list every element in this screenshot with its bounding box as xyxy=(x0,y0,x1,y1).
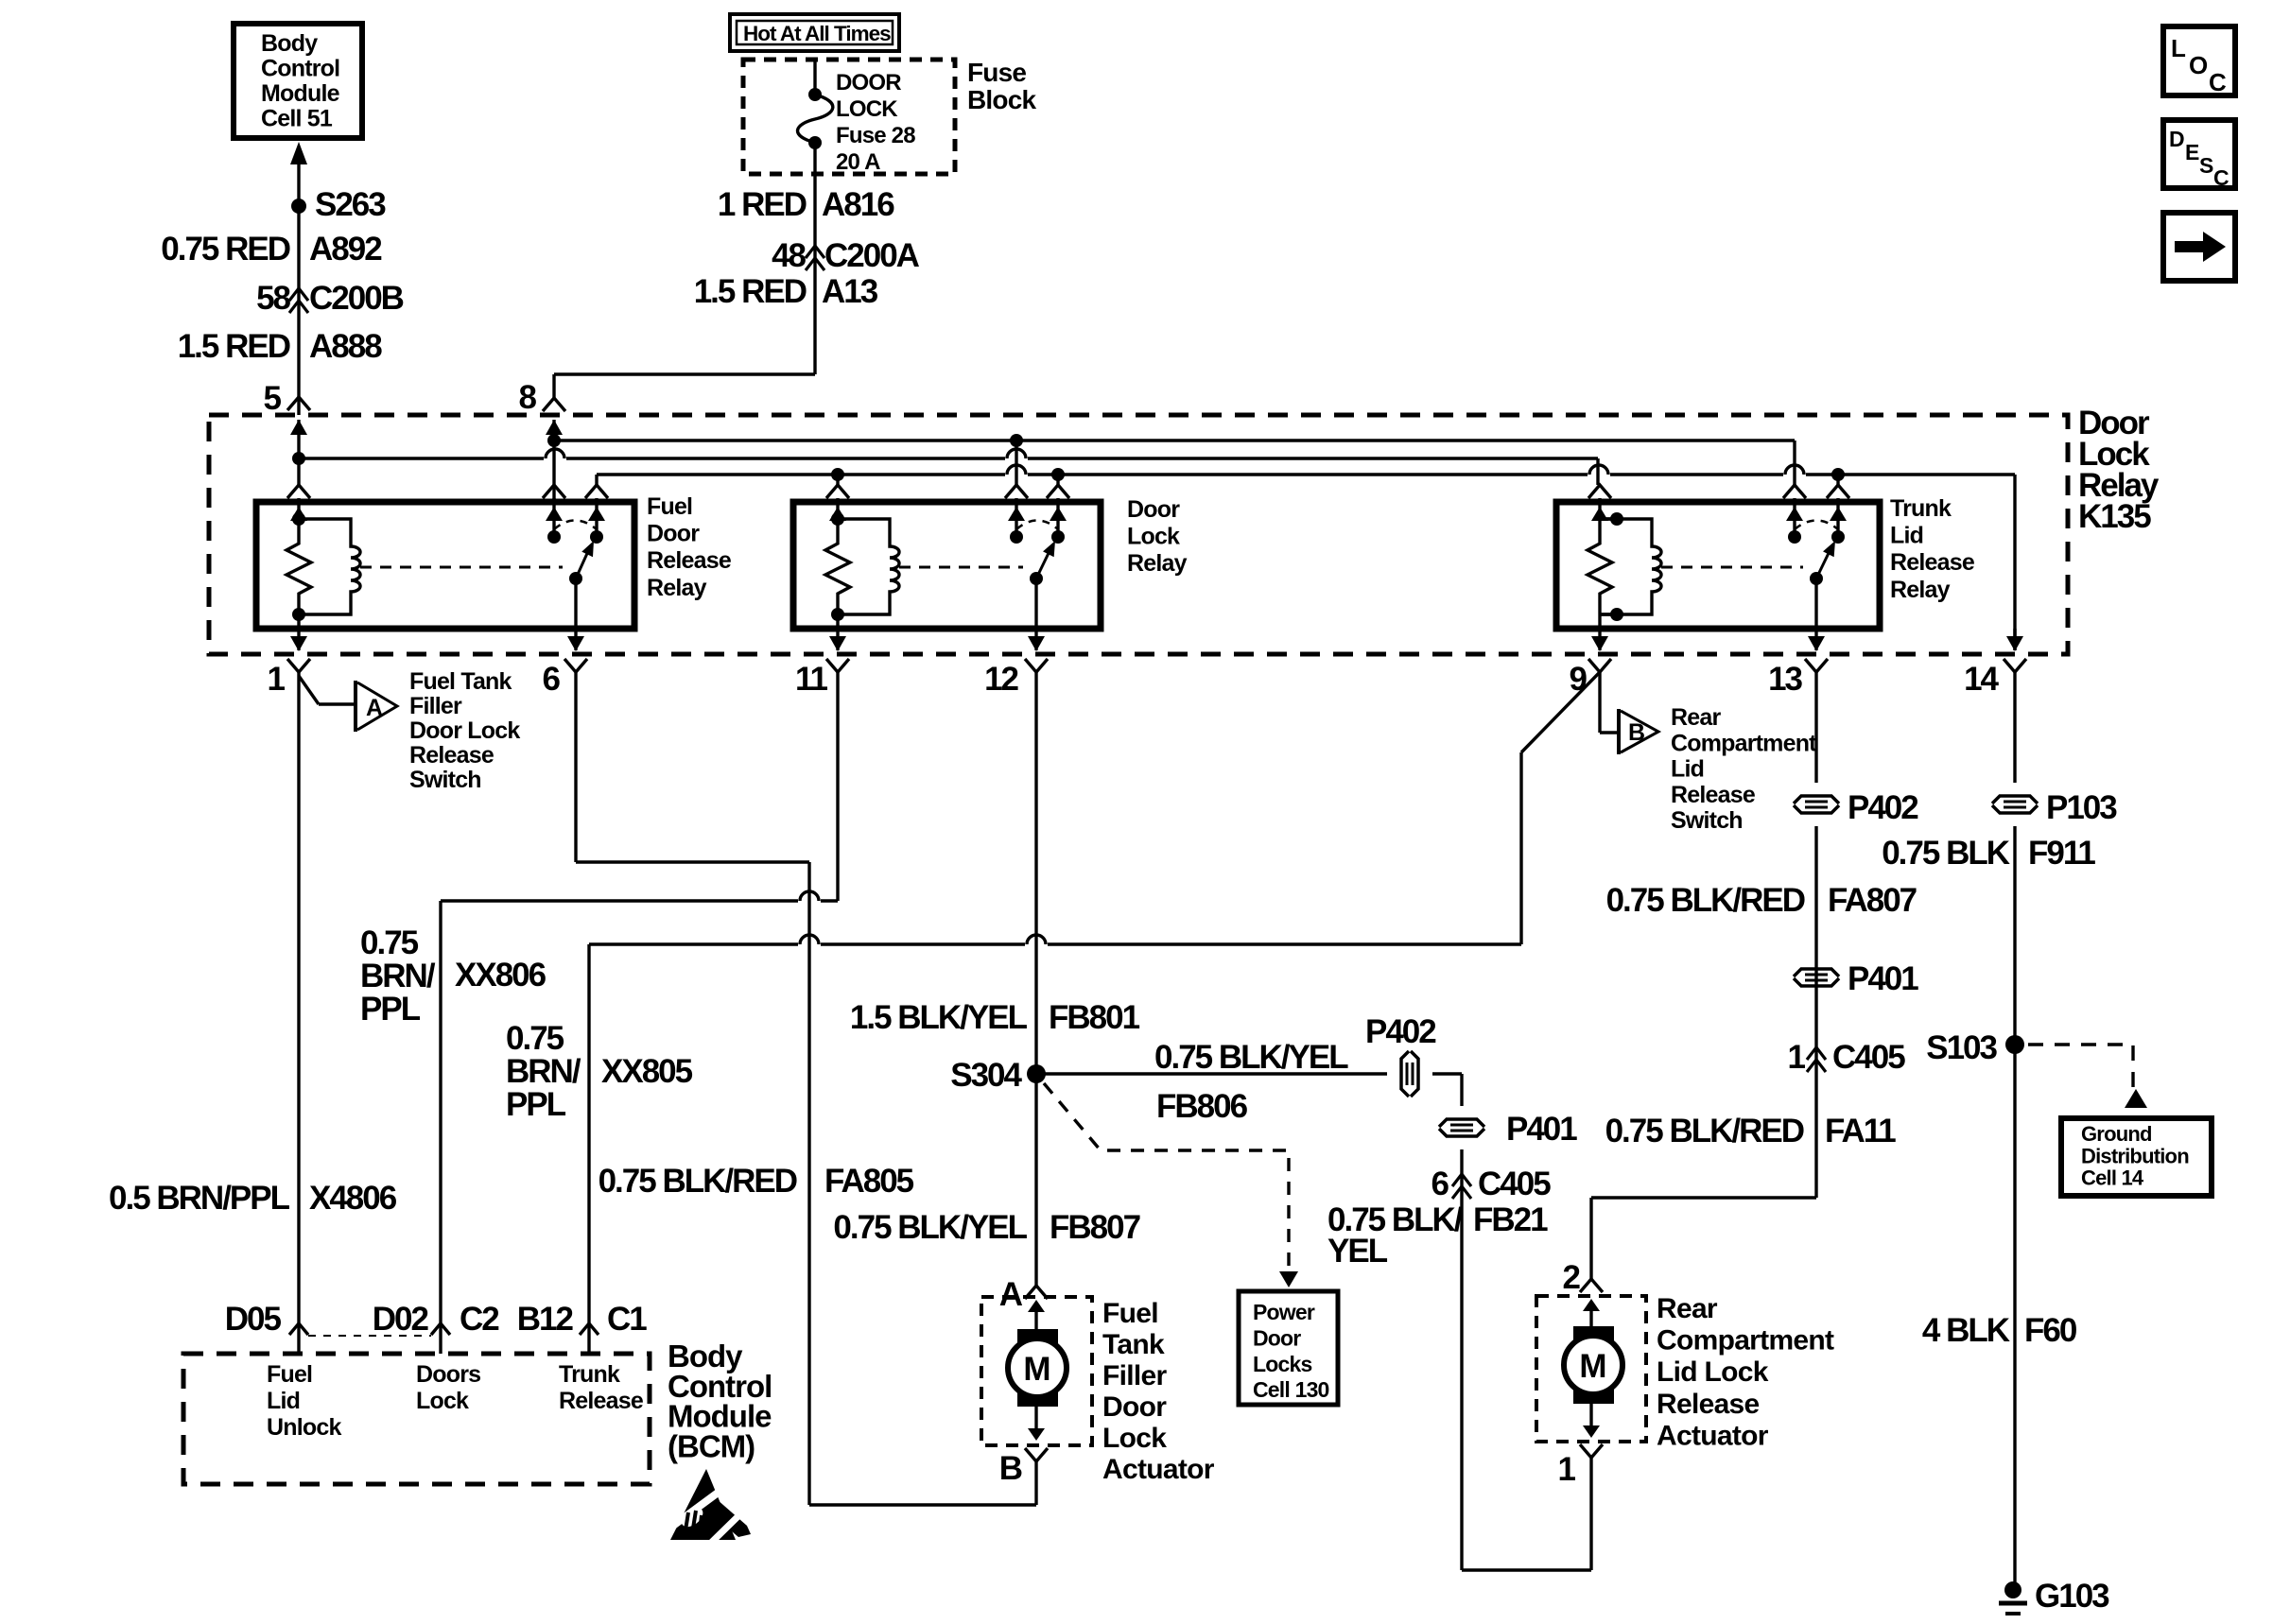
switch A pointer xyxy=(299,676,319,704)
wire actuator1 B loop xyxy=(1034,1461,1037,1505)
svg-text:FB806: FB806 xyxy=(1156,1088,1248,1125)
svg-text:Lock: Lock xyxy=(416,1388,469,1414)
svg-text:Relay: Relay xyxy=(647,575,707,601)
svg-text:Release: Release xyxy=(1890,549,1975,576)
svg-text:D: D xyxy=(2169,127,2185,151)
svg-text:LOCK: LOCK xyxy=(836,96,898,122)
ESD symbol xyxy=(670,1469,736,1540)
svg-text:Trunk: Trunk xyxy=(1890,495,1952,522)
ground G103 xyxy=(2004,1581,2021,1598)
svg-text:P402: P402 xyxy=(1848,789,1918,826)
svg-text:Door Lock: Door Lock xyxy=(409,717,520,744)
svg-text:B12: B12 xyxy=(517,1301,574,1338)
bus A drop wire relay2 xyxy=(1015,441,1017,485)
pin 14 exit arrow xyxy=(2013,629,2016,650)
splice S103 xyxy=(2005,1035,2024,1054)
svg-text:Release: Release xyxy=(647,547,732,574)
svg-text:C405: C405 xyxy=(1478,1166,1551,1202)
dashed wire S304 to Power Door Locks xyxy=(1044,1083,1289,1274)
bus wire C xyxy=(597,473,1005,475)
svg-text:Tank: Tank xyxy=(1102,1329,1165,1360)
wire pin1 to BCM xyxy=(297,672,300,1354)
svg-text:Lid: Lid xyxy=(1671,756,1704,783)
bus C drop wires xyxy=(836,475,839,485)
actuator1 bottom arrow xyxy=(1034,1407,1037,1429)
connector P401 inline right xyxy=(1439,1119,1484,1127)
svg-text:0.75 BLK/RED: 0.75 BLK/RED xyxy=(1606,882,1805,919)
svg-text:1.5 RED: 1.5 RED xyxy=(694,273,807,310)
svg-text:Lock: Lock xyxy=(1127,524,1180,550)
svg-text:Lock: Lock xyxy=(1102,1423,1167,1454)
arrow reference box xyxy=(2163,213,2235,281)
svg-text:DOOR: DOOR xyxy=(836,70,901,95)
wire pin12 to S304 xyxy=(1034,672,1037,1286)
connector carets above relay 1 xyxy=(287,485,310,498)
svg-text:11: 11 xyxy=(795,661,828,698)
svg-text:Control: Control xyxy=(261,56,339,82)
svg-text:B: B xyxy=(999,1450,1022,1487)
splice S263 xyxy=(291,199,306,214)
svg-text:PPL: PPL xyxy=(360,991,421,1028)
svg-text:K135: K135 xyxy=(2078,498,2151,535)
svg-text:FA805: FA805 xyxy=(824,1163,914,1200)
relay K135a Fuel Door Release Relay xyxy=(256,502,634,629)
svg-text:0.75 BLK/YEL: 0.75 BLK/YEL xyxy=(1154,1039,1348,1076)
svg-text:Fuel Tank: Fuel Tank xyxy=(409,668,512,695)
svg-text:Relay: Relay xyxy=(1127,550,1188,577)
svg-text:Locks: Locks xyxy=(1253,1352,1311,1376)
pin 5 connector caret xyxy=(287,397,310,410)
svg-text:A892: A892 xyxy=(309,231,382,268)
svg-text:Fuel: Fuel xyxy=(267,1361,312,1388)
pin 13 exit arrow xyxy=(1814,629,1817,650)
wire hot feed into fuse xyxy=(813,59,816,95)
svg-text:FA807: FA807 xyxy=(1828,882,1917,919)
pin 1 exit arrow xyxy=(297,629,300,650)
connector carets above relay 2 xyxy=(826,485,849,498)
DESC reference box xyxy=(2163,120,2235,188)
svg-text:A: A xyxy=(999,1276,1023,1313)
svg-text:A816: A816 xyxy=(822,186,894,223)
svg-text:BRN/: BRN/ xyxy=(360,958,436,994)
svg-text:Cell 14: Cell 14 xyxy=(2081,1166,2144,1190)
svg-text:Body: Body xyxy=(261,30,318,57)
box Ground Distribution Cell 14 xyxy=(2061,1118,2212,1196)
box Hot At All Times xyxy=(730,14,899,51)
svg-text:Lid: Lid xyxy=(267,1388,300,1414)
svg-text:X4806: X4806 xyxy=(309,1180,397,1217)
svg-text:0.75: 0.75 xyxy=(506,1020,564,1057)
svg-text:Hot At All Times: Hot At All Times xyxy=(743,22,891,45)
svg-text:A13: A13 xyxy=(822,273,878,310)
svg-text:C: C xyxy=(2209,68,2227,96)
svg-text:S: S xyxy=(2199,153,2213,178)
actuator1 top arrow xyxy=(1028,1300,1045,1312)
svg-text:P401: P401 xyxy=(1848,960,1918,997)
svg-text:13: 13 xyxy=(1768,661,1802,698)
svg-text:C: C xyxy=(2213,165,2230,190)
svg-text:XX806: XX806 xyxy=(455,957,547,993)
dashed box Door Lock Relay K135 xyxy=(209,415,2068,654)
pin 8 connector caret xyxy=(543,398,565,411)
svg-text:FB21: FB21 xyxy=(1473,1201,1548,1238)
pin B vee xyxy=(1025,1448,1048,1461)
svg-text:Relay: Relay xyxy=(1890,577,1951,603)
svg-text:Switch: Switch xyxy=(409,767,481,793)
svg-text:FA11: FA11 xyxy=(1825,1113,1896,1149)
svg-text:Rear: Rear xyxy=(1671,704,1721,731)
fuse block dashed box xyxy=(743,60,955,174)
svg-text:Release: Release xyxy=(1671,782,1756,808)
svg-text:Release: Release xyxy=(409,742,495,769)
wire pin14 chain xyxy=(2013,672,2016,783)
svg-text:Fuse 28: Fuse 28 xyxy=(836,123,915,148)
svg-text:6: 6 xyxy=(543,661,561,698)
motor M rear actuator xyxy=(1573,1326,1614,1343)
dashed wire S103 to Ground Distribution xyxy=(2028,1045,2133,1087)
svg-text:M: M xyxy=(1579,1348,1606,1385)
svg-text:S103: S103 xyxy=(1926,1029,1997,1066)
svg-text:14: 14 xyxy=(1964,661,1999,698)
svg-text:Cell 51: Cell 51 xyxy=(261,106,333,132)
svg-text:5: 5 xyxy=(264,380,282,417)
svg-text:O: O xyxy=(2189,51,2208,79)
svg-text:S304: S304 xyxy=(950,1057,1022,1094)
junction dot pin8 bus A xyxy=(547,434,561,447)
splice S304 xyxy=(1027,1064,1046,1083)
svg-text:Cell 130: Cell 130 xyxy=(1253,1377,1329,1402)
svg-text:Ground: Ground xyxy=(2081,1122,2152,1146)
svg-text:Fuel: Fuel xyxy=(1102,1298,1158,1329)
relay K135c Trunk Lid Release Relay xyxy=(1556,502,1880,629)
wire fuse to pin 8 xyxy=(813,143,816,374)
fuse DOOR LOCK Fuse 28 20A xyxy=(808,88,822,101)
svg-text:Trunk: Trunk xyxy=(559,1361,620,1388)
svg-text:20 A: 20 A xyxy=(836,149,880,175)
svg-text:A: A xyxy=(366,695,383,721)
svg-text:Compartment: Compartment xyxy=(1657,1325,1834,1356)
motor M fuel actuator xyxy=(1017,1329,1058,1346)
pin 2 caret xyxy=(1580,1279,1603,1292)
actuator2 bottom arrow xyxy=(1589,1404,1592,1426)
bus wire A xyxy=(554,439,1795,441)
svg-text:(BCM): (BCM) xyxy=(668,1428,755,1463)
box Power Door Locks Cell 130 xyxy=(1239,1291,1338,1405)
svg-text:0.75 BLK/RED: 0.75 BLK/RED xyxy=(1605,1113,1804,1149)
svg-text:Filler: Filler xyxy=(409,693,462,719)
svg-text:12: 12 xyxy=(984,661,1018,698)
pin 11 exit arrow xyxy=(836,629,839,650)
svg-text:Lid Lock: Lid Lock xyxy=(1657,1356,1769,1388)
svg-text:C1: C1 xyxy=(607,1301,647,1338)
pin 1 vee rear xyxy=(1580,1444,1603,1458)
dashed box Rear Compartment Lid Lock Release Actuator xyxy=(1536,1296,1646,1442)
svg-text:0.75 BLK/RED: 0.75 BLK/RED xyxy=(599,1163,797,1200)
svg-text:M: M xyxy=(1023,1351,1050,1388)
svg-text:Door: Door xyxy=(1102,1391,1167,1423)
svg-text:D05: D05 xyxy=(225,1301,282,1338)
svg-text:6: 6 xyxy=(1431,1166,1449,1202)
pin 12 exit arrow xyxy=(1034,629,1037,650)
svg-text:S263: S263 xyxy=(315,186,386,223)
svg-text:1 RED: 1 RED xyxy=(718,186,807,223)
svg-text:C200B: C200B xyxy=(309,280,404,317)
svg-text:Actuator: Actuator xyxy=(1657,1420,1769,1451)
wire P401 to C405 xyxy=(1460,1149,1463,1570)
svg-text:4 BLK: 4 BLK xyxy=(1922,1312,2010,1349)
svg-text:0.75: 0.75 xyxy=(360,924,419,961)
actuator2 top arrow xyxy=(1583,1299,1600,1311)
svg-text:Module: Module xyxy=(261,80,340,107)
svg-text:1.5 BLK/YEL: 1.5 BLK/YEL xyxy=(850,999,1028,1036)
wire BCM to S263 with arrow xyxy=(290,142,307,164)
svg-text:XX805: XX805 xyxy=(601,1053,693,1090)
svg-text:Doors: Doors xyxy=(416,1361,480,1388)
svg-text:G103: G103 xyxy=(2035,1578,2109,1615)
svg-text:B: B xyxy=(1628,719,1645,746)
svg-text:Block: Block xyxy=(967,85,1036,114)
svg-text:2: 2 xyxy=(1563,1259,1581,1296)
svg-text:Release: Release xyxy=(559,1388,644,1414)
svg-text:58: 58 xyxy=(256,280,290,317)
wire pin6 to FA805 riser xyxy=(574,672,577,862)
svg-text:0.75 BLK: 0.75 BLK xyxy=(1882,835,2009,872)
svg-text:E: E xyxy=(2185,140,2199,164)
junction dot pin5 bus B xyxy=(292,452,305,465)
svg-text:FB801: FB801 xyxy=(1049,999,1140,1036)
pin 5 wire into box xyxy=(290,420,307,435)
svg-text:0.5 BRN/PPL: 0.5 BRN/PPL xyxy=(109,1180,290,1217)
svg-text:Filler: Filler xyxy=(1102,1360,1168,1391)
svg-text:1.5 RED: 1.5 RED xyxy=(178,328,290,365)
pin 8 wire into box xyxy=(546,420,563,435)
BCM connector dashed link xyxy=(308,1335,431,1337)
svg-text:Unlock: Unlock xyxy=(267,1414,341,1441)
switch B pointer xyxy=(1598,672,1601,733)
wire actuator2 pin1 loop xyxy=(1589,1458,1592,1570)
wires into relay tops xyxy=(297,498,300,502)
pin 6 exit arrow xyxy=(574,629,577,650)
wire pin9 diagonal to XX805 xyxy=(1521,672,1600,752)
bus wire B xyxy=(299,457,544,459)
connector P401 on pin13 xyxy=(1794,969,1839,976)
svg-text:F911: F911 xyxy=(2028,835,2095,872)
svg-text:C405: C405 xyxy=(1832,1039,1905,1076)
svg-text:FB807: FB807 xyxy=(1050,1209,1140,1246)
svg-text:Fuel: Fuel xyxy=(647,493,692,520)
wire S304 to P402 xyxy=(1036,1072,1387,1075)
svg-text:C2: C2 xyxy=(460,1301,499,1338)
svg-text:Door: Door xyxy=(1253,1325,1301,1350)
wire pin13 chain xyxy=(1814,672,1817,783)
svg-text:P103: P103 xyxy=(2046,789,2117,826)
svg-text:Release: Release xyxy=(1657,1389,1760,1420)
svg-text:Switch: Switch xyxy=(1671,807,1743,834)
svg-text:Rear: Rear xyxy=(1657,1293,1718,1324)
svg-text:D02: D02 xyxy=(373,1301,429,1338)
wire pin11 to XX806 xyxy=(836,672,839,901)
svg-text:1: 1 xyxy=(1558,1451,1576,1488)
svg-text:48: 48 xyxy=(772,237,806,274)
dashed box Fuel Tank Filler Door Lock Actuator xyxy=(981,1297,1092,1445)
svg-text:Compartment: Compartment xyxy=(1671,730,1817,756)
svg-text:Fuse: Fuse xyxy=(967,58,1026,87)
connector P103 on pin14 xyxy=(1992,796,2038,803)
junction dots bus C xyxy=(831,468,844,481)
svg-text:Distribution: Distribution xyxy=(2081,1144,2189,1167)
svg-text:8: 8 xyxy=(519,379,537,416)
svg-text:BRN/: BRN/ xyxy=(506,1053,581,1090)
svg-text:L: L xyxy=(2171,34,2186,62)
triangle B Rear Compartment Lid Release Switch xyxy=(1617,709,1621,754)
svg-text:0.75 BLK/YEL: 0.75 BLK/YEL xyxy=(833,1209,1027,1246)
connector carets above relay 3 xyxy=(1588,485,1611,498)
junction dot bus A relay2 xyxy=(1010,434,1023,447)
svg-text:Lid: Lid xyxy=(1890,523,1923,549)
svg-text:YEL: YEL xyxy=(1327,1233,1388,1270)
svg-text:Actuator: Actuator xyxy=(1102,1454,1215,1485)
svg-text:F60: F60 xyxy=(2024,1312,2077,1349)
triangle A Fuel Tank Filler Door Lock Release Switch xyxy=(354,681,357,732)
pin 9 exit arrow xyxy=(1598,629,1601,650)
box Body Control Module Cell 51 xyxy=(234,24,362,138)
dashed box Body Control Module BCM xyxy=(183,1354,650,1484)
svg-text:Power: Power xyxy=(1253,1300,1315,1324)
LOC reference box xyxy=(2163,26,2235,95)
connector P402 inline xyxy=(1401,1051,1409,1097)
svg-text:0.75 RED: 0.75 RED xyxy=(161,231,289,268)
BCM pin carets xyxy=(289,1323,308,1335)
svg-text:1: 1 xyxy=(1788,1039,1806,1076)
connector P402 on pin13 xyxy=(1794,796,1839,803)
svg-text:PPL: PPL xyxy=(506,1086,566,1123)
pin A caret xyxy=(1025,1286,1048,1299)
svg-text:P401: P401 xyxy=(1506,1111,1577,1148)
svg-text:Door: Door xyxy=(647,521,700,547)
svg-text:A888: A888 xyxy=(309,328,382,365)
relay K135b Door Lock Relay xyxy=(793,502,1101,629)
svg-text:1: 1 xyxy=(268,661,286,698)
svg-text:P402: P402 xyxy=(1365,1013,1436,1050)
svg-text:C200A: C200A xyxy=(824,237,920,274)
svg-text:Door: Door xyxy=(1127,496,1180,523)
